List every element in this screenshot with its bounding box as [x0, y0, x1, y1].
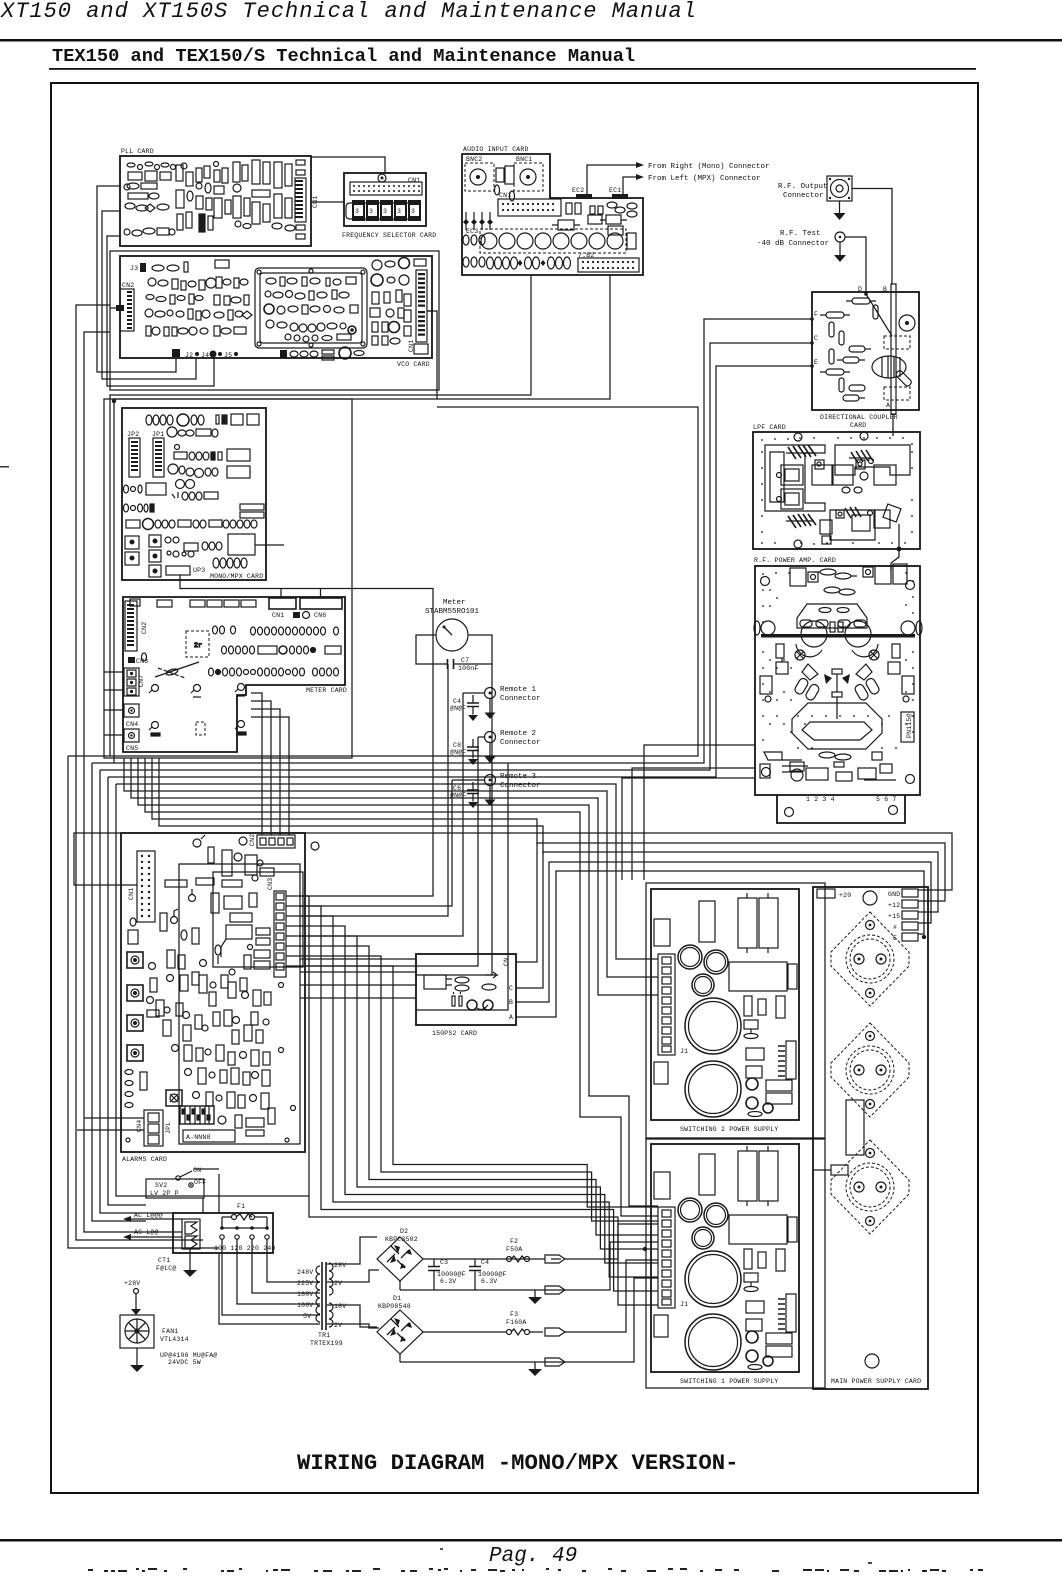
bus line B6 to 150PS2 loop riser — [152, 758, 537, 845]
meter card CN2 left connector — [125, 601, 148, 661]
svg-text:CN3: CN3 — [267, 878, 274, 890]
150PS2 loop 4 to main card pin E — [516, 871, 924, 1017]
alarms CN3 to 150PS2 wires — [300, 959, 416, 998]
svg-text:Connector: Connector — [500, 782, 541, 790]
svg-text:28V: 28V — [334, 1262, 346, 1269]
svg-text:WIRING DIAGRAM -MONO/MPX VERSI: WIRING DIAGRAM -MONO/MPX VERSION- — [297, 1450, 739, 1476]
svg-text:Connector: Connector — [783, 192, 824, 200]
left corridor wire 6 — [108, 777, 146, 1205]
svg-text:CARD: CARD — [850, 422, 866, 429]
svg-text:A: A — [509, 1014, 513, 1021]
svg-text:VTL4314: VTL4314 — [160, 1336, 189, 1343]
middle corridor M3 from remote 3 — [300, 780, 452, 906]
meter card lower test points — [149, 684, 246, 737]
svg-text:PN115@: PN115@ — [906, 713, 913, 738]
wire VCO right edge to container — [427, 311, 437, 399]
svg-text:D2: D2 — [400, 1228, 408, 1235]
bus line B5 deep to switching1 J1 — [145, 758, 658, 1216]
svg-text:+15: +15 — [888, 913, 900, 920]
+28V rail riser to switching1 — [603, 1224, 658, 1259]
bus line A3 coupler C — [100, 343, 812, 770]
PLL CN edge connector — [295, 178, 319, 222]
left corridor wire 2 — [76, 305, 203, 1240]
svg-text:J3: J3 — [130, 265, 138, 272]
VCO module container — [110, 251, 439, 390]
staircase SG1 line 6 — [300, 946, 658, 1235]
svg-text:CN4: CN4 — [126, 721, 138, 728]
svg-text:F1: F1 — [237, 1203, 245, 1210]
middle corridor M4 from remote 1 — [300, 693, 463, 936]
staircase SG1 line 7 — [300, 956, 658, 1221]
svg-text:Connector: Connector — [500, 739, 541, 747]
main card +20 pin — [817, 889, 851, 899]
svg-text:6.3V: 6.3V — [481, 1278, 497, 1285]
bus line A2 coupler F — [92, 319, 812, 763]
svg-text:F160A: F160A — [506, 1319, 527, 1326]
smoothing caps C3 C4 — [400, 1259, 545, 1290]
svg-text:CN: CN — [503, 958, 510, 966]
svg-text:B: B — [509, 999, 513, 1006]
svg-text:Connector: Connector — [500, 695, 541, 703]
svg-text:F: F — [814, 311, 818, 318]
switching 2 power supply module — [646, 883, 825, 1138]
footer rule — [0, 1539, 1062, 1542]
svg-text:+20: +20 — [839, 892, 851, 899]
meter card — [123, 597, 347, 752]
VCO J2 J4 J5 test points — [172, 347, 364, 360]
R.F. Test connector — [757, 230, 846, 262]
VCO card — [120, 256, 432, 368]
svg-text:F2: F2 — [510, 1238, 518, 1245]
D1 rectifier bridge — [377, 1295, 423, 1354]
R.F. Output connector — [778, 176, 852, 220]
transformer primary wires from fuse pins — [203, 1174, 320, 1324]
D2 input wires — [327, 1237, 379, 1282]
switching 1 power supply module — [646, 1139, 825, 1388]
0V output arrow and ground — [528, 1286, 565, 1304]
VCO J3 point — [130, 263, 146, 272]
svg-text:J1: J1 — [680, 1301, 688, 1308]
From Left (MPX) arrow — [623, 174, 761, 194]
svg-text:J5: J5 — [224, 352, 232, 359]
wire mono/mpx UP3 to meter card CN1/CN6 — [180, 575, 321, 597]
svg-text:SV2: SV2 — [155, 1182, 167, 1189]
LPF trace outline — [765, 445, 825, 511]
svg-text:150PS2 CARD: 150PS2 CARD — [432, 1030, 477, 1037]
svg-text:100V: 100V — [297, 1302, 313, 1309]
staircase SG1 line 4 — [300, 926, 658, 1263]
svg-text:A-NNN8: A-NNN8 — [186, 1134, 211, 1141]
coupling coil — [872, 356, 906, 378]
svg-text:2V: 2V — [334, 1280, 342, 1287]
AC line arrows — [123, 1212, 182, 1240]
meter to alarms CN2 riser 4 — [251, 717, 289, 835]
alarms CN1 connector — [128, 851, 155, 922]
R.F. power amp card — [754, 557, 922, 823]
svg-text:C4: C4 — [453, 698, 461, 705]
svg-text:ALARMS CARD: ALARMS CARD — [122, 1156, 167, 1163]
middle scatter — [167, 950, 175, 968]
F2 fuse — [506, 1238, 530, 1262]
svg-text:C4: C4 — [481, 1259, 489, 1266]
meter card top edge connectors — [130, 598, 342, 609]
+28V fan supply — [124, 1280, 141, 1315]
svg-text:CN1: CN1 — [408, 177, 420, 184]
alarms card — [121, 833, 305, 1163]
bus line B2 to switching2 J1 — [124, 758, 658, 977]
left margin tick — [0, 466, 9, 468]
wire RF output to coupler B — [852, 189, 892, 285]
amp lower parts — [760, 752, 896, 781]
main card power transistor 2 — [831, 1023, 909, 1117]
alarms CN2 top connector — [239, 834, 319, 850]
PLL card components — [124, 160, 305, 239]
svg-text:LPF CARD: LPF CARD — [753, 424, 786, 431]
svg-text:CT1: CT1 — [158, 1257, 170, 1264]
bus line B3 to switching2 J1 — [131, 758, 658, 995]
lower 0V rail riser — [545, 1278, 658, 1362]
svg-text:UP3: UP3 — [193, 567, 205, 574]
amp upper trapezoid — [797, 604, 867, 628]
alarms bottom label strip — [165, 1122, 235, 1142]
wire PLL pin1 to VCO J2 — [97, 186, 176, 372]
F1 fuse block — [173, 1203, 276, 1253]
svg-text:C: C — [509, 985, 513, 992]
F3 fuse and 18V rail — [423, 1311, 603, 1336]
alarms DIP switch — [180, 1106, 214, 1124]
svg-text:+28V: +28V — [124, 1280, 140, 1287]
meter to alarms CN2 riser 3 — [251, 709, 280, 835]
svg-text:CN1: CN1 — [272, 612, 284, 619]
wire PLL top to frequency selector top — [311, 157, 385, 173]
svg-text:5 6 7: 5 6 7 — [876, 796, 897, 803]
svg-text:@N@F: @N@F — [450, 749, 466, 756]
svg-text:@N@F: @N@F — [450, 705, 466, 712]
svg-text:GND: GND — [888, 891, 900, 898]
svg-text:R.F. POWER AMP. CARD: R.F. POWER AMP. CARD — [754, 557, 836, 564]
svg-text:JPL: JPL — [165, 1122, 172, 1134]
svg-text:10000@F: 10000@F — [478, 1271, 507, 1278]
svg-text:R.F. Test: R.F. Test — [780, 230, 821, 238]
18V rail riser — [603, 1260, 658, 1332]
main card GND loop — [74, 833, 952, 890]
staircase SG1 line 1 — [300, 896, 658, 1305]
+28V output arrow — [545, 1255, 603, 1263]
svg-text:Remote 1: Remote 1 — [500, 686, 537, 694]
VCO right section components — [370, 258, 426, 346]
bus line A1 audio/VCO to left — [68, 311, 698, 756]
VCO CN2 connector left — [116, 282, 134, 331]
svg-text:24VDC 5W: 24VDC 5W — [168, 1359, 201, 1366]
svg-text:BNC2: BNC2 — [466, 156, 482, 163]
amp hexagon output network — [792, 703, 882, 749]
Remote 1 connector — [463, 686, 541, 719]
CN1 connector — [498, 192, 561, 216]
svg-text:AUDIO INPUT CARD: AUDIO INPUT CARD — [463, 146, 529, 153]
D2 rectifier bridge — [377, 1228, 423, 1281]
svg-text:TRTEX199: TRTEX199 — [310, 1340, 343, 1347]
svg-text:C8: C8 — [453, 742, 461, 749]
svg-text:2r: 2r — [194, 642, 202, 649]
alarms CN3 stubs — [286, 896, 300, 966]
amp top input components — [790, 564, 907, 595]
switching 2 J1 connector — [658, 954, 688, 1055]
meter to alarms CN2 riser 2 — [251, 701, 271, 835]
resistors — [820, 298, 878, 401]
CT1 ground — [183, 1249, 197, 1277]
RF amp input wires left — [622, 745, 755, 880]
wire PLL pin3 to VCO J5 — [107, 236, 214, 386]
svg-text:CN3: CN3 — [136, 658, 148, 665]
switching 2 components — [654, 893, 797, 1117]
svg-text:-40 dB Connector: -40 dB Connector — [757, 240, 829, 248]
svg-text:248V: 248V — [297, 1269, 313, 1276]
wire audio CN1 down to mono container — [110, 275, 531, 756]
diagram outer border — [51, 83, 978, 1493]
directional coupler card — [810, 284, 919, 429]
left corridor wire 1 — [68, 756, 219, 1248]
main card middle parts — [813, 1100, 864, 1175]
svg-text:XT150 and XT150S Technical and: XT150 and XT150S Technical and Maintenan… — [0, 0, 697, 24]
svg-text:F50A: F50A — [506, 1246, 522, 1253]
thick bus bar — [761, 634, 915, 638]
transformer TR1 — [297, 1262, 346, 1347]
bus line B4 deep to switching1 J1 — [138, 758, 658, 1206]
alarms CN3 connector column — [267, 878, 286, 977]
svg-text:#: # — [893, 924, 897, 931]
wire audio 7B2 down to mono container — [114, 275, 610, 763]
svg-text:UP@4106 MU@FA@: UP@4106 MU@FA@ — [160, 1352, 217, 1359]
svg-text:MAIN POWER SUPPLY CARD: MAIN POWER SUPPLY CARD — [831, 1378, 921, 1385]
svg-text:SWITCHING 2 POWER SUPPLY: SWITCHING 2 POWER SUPPLY — [680, 1126, 778, 1133]
bus line A4 coupler E — [108, 366, 812, 777]
svg-text:CN5: CN5 — [126, 745, 138, 752]
svg-text:CN2: CN2 — [122, 282, 134, 289]
left corridor wire 7 — [116, 784, 309, 1196]
middle corridor M5 from remote 2 — [300, 737, 478, 966]
svg-text:3: 3 — [369, 208, 373, 215]
alarms card components — [125, 835, 296, 1142]
wire PLL pin2 to VCO J4 — [102, 211, 196, 379]
svg-text:C: C — [814, 335, 818, 342]
middle corridor M6 from meter to 150PS2 — [416, 664, 492, 975]
svg-text:100 120 220 240: 100 120 220 240 — [214, 1245, 276, 1252]
bus line B7 to 150PS2 loop riser — [159, 758, 543, 854]
150PS2 right pins — [503, 958, 513, 1021]
svg-text:JP2: JP2 — [127, 431, 139, 438]
C4 capacitor — [450, 695, 479, 721]
wire VCO CN2 stub — [110, 307, 116, 309]
relay squares left column — [128, 930, 138, 944]
svg-text:225V: 225V — [297, 1280, 313, 1287]
svg-text:180V: 180V — [297, 1291, 313, 1298]
svg-text:From Left (MPX) Connector: From Left (MPX) Connector — [648, 175, 761, 183]
meter card CN7 connector — [124, 668, 145, 696]
wire PLL to frequency selector — [311, 201, 344, 203]
middle corridor M1 from mono UP3 — [300, 589, 433, 897]
svg-text:D: D — [858, 286, 862, 293]
mono/mpx bottom connectors and parts — [125, 534, 284, 577]
svg-text:A: A — [886, 402, 890, 409]
audio input card — [462, 146, 643, 275]
svg-text:BNC1: BNC1 — [516, 156, 532, 163]
bottom small parts — [280, 350, 287, 358]
mono/mpx card — [122, 408, 266, 580]
svg-text:CN1: CN1 — [128, 888, 135, 900]
150PS2 loop 3 to main card pin4 — [516, 862, 931, 1002]
bus line B1 to switching2 J1 — [116, 784, 658, 959]
svg-text:3: 3 — [411, 208, 415, 215]
svg-text:FAN1: FAN1 — [162, 1328, 178, 1335]
main card right pins GND +12 +15 # E — [888, 889, 926, 942]
staircase SG1 line 3 — [300, 916, 658, 1277]
Remote 3 connector — [452, 773, 541, 806]
middle corridor M2 from meter loop — [300, 664, 448, 916]
frequency selector card — [342, 173, 436, 239]
wire RF test to coupler D — [845, 237, 866, 292]
amp transistors — [801, 621, 827, 647]
svg-text:KBPC3502: KBPC3502 — [385, 1236, 418, 1243]
svg-text:EC2: EC2 — [572, 187, 584, 194]
main power supply card — [813, 887, 928, 1389]
svg-text:D1: D1 — [393, 1295, 401, 1302]
alarms CN4 wires left — [77, 1118, 144, 1130]
svg-text:METER CARD: METER CARD — [306, 687, 347, 694]
CT1 mains filter — [156, 1219, 200, 1272]
svg-text:TR1: TR1 — [318, 1332, 330, 1339]
svg-text:C7: C7 — [461, 657, 469, 664]
svg-text:100nF: 100nF — [458, 665, 479, 672]
audio electrolytic row (dashed) — [466, 228, 636, 253]
PLL card — [120, 148, 311, 246]
svg-text:CN2: CN2 — [141, 622, 148, 634]
meter — [425, 599, 480, 651]
svg-text:C3: C3 — [440, 1259, 448, 1266]
audio 7x2 connector bottom — [578, 252, 639, 272]
svg-text:R.F. Output: R.F. Output — [778, 183, 828, 191]
svg-text:F3: F3 — [510, 1311, 518, 1318]
svg-text:3: 3 — [397, 208, 401, 215]
svg-text:J1: J1 — [680, 1048, 688, 1055]
svg-text:3: 3 — [355, 208, 359, 215]
svg-text:6.3V: 6.3V — [440, 1278, 456, 1285]
svg-text:18V: 18V — [334, 1303, 346, 1310]
circle with dot — [899, 315, 915, 331]
meter CN7 stubs — [104, 672, 124, 690]
LPF capacitors — [777, 459, 901, 545]
C8 capacitor — [450, 739, 479, 765]
svg-text:Meter: Meter — [443, 599, 466, 607]
amp mid section — [760, 644, 914, 701]
svg-text:E: E — [814, 359, 818, 366]
svg-text:MONO/MPX CARD: MONO/MPX CARD — [210, 573, 263, 580]
meter to alarms CN2 riser 1 — [251, 693, 262, 835]
left corridor wire 5 — [100, 770, 173, 1213]
LPF card — [753, 414, 920, 552]
svg-text:J2: J2 — [185, 352, 193, 359]
svg-text:EC3: EC3 — [466, 228, 478, 235]
junction dot — [112, 399, 116, 403]
svg-text:10000@F: 10000@F — [437, 1271, 466, 1278]
VCO CN1 edge connector right — [408, 270, 428, 354]
150PS2 card — [416, 954, 516, 1037]
svg-text:Pag. 49: Pag. 49 — [489, 1545, 577, 1568]
switching 1 J1 connector — [658, 1207, 688, 1308]
meter card components — [186, 626, 341, 676]
svg-text:B: B — [883, 286, 887, 293]
EC2 EC1 connectors on top edge — [572, 187, 628, 199]
svg-text:5V: 5V — [303, 1313, 311, 1320]
mono/mpx JP2 JP1 connectors — [127, 431, 164, 477]
svg-text:JP1: JP1 — [152, 431, 164, 438]
svg-text:VCO CARD: VCO CARD — [397, 361, 430, 368]
svg-text:CN2: CN2 — [249, 834, 256, 846]
audio card small parts — [463, 202, 637, 267]
150PS2 loop 1 to main card +12 — [516, 843, 945, 962]
scan noise line at bottom — [88, 1548, 983, 1572]
D1 input wires — [327, 1305, 379, 1328]
left corridor wire 3 — [84, 332, 182, 1232]
SW2 power switch — [146, 1167, 219, 1198]
D1 lower rail arrow and ground — [400, 1354, 565, 1376]
switching 1 components — [654, 1146, 797, 1370]
relay between BNCs — [495, 166, 515, 201]
meter wiring loop with C7 — [416, 635, 492, 672]
svg-text:FREQUENCY SELECTOR CARD: FREQUENCY SELECTOR CARD — [342, 232, 436, 239]
dashed taps — [884, 336, 910, 349]
middle corridor M7 to 150PS2 — [416, 763, 508, 1010]
LPF inductors (hatched) — [788, 445, 873, 528]
svg-text:CN1: CN1 — [499, 192, 511, 199]
amp mounting plate — [777, 795, 905, 823]
FAN1 — [120, 1315, 217, 1372]
svg-text:ON: ON — [193, 1167, 201, 1174]
svg-text:KBP08548: KBP08548 — [378, 1303, 411, 1310]
left corridor wire 4 — [92, 763, 146, 1221]
PN label box — [901, 712, 914, 742]
svg-text:TEX150 and TEX150/S Technical: TEX150 and TEX150/S Technical and Mainte… — [52, 45, 635, 67]
svg-text:2V: 2V — [334, 1322, 342, 1329]
mono/mpx module container — [104, 399, 352, 758]
150PS2 loop 2 to main card +15 — [516, 852, 938, 988]
wire LPF to RF amp — [891, 549, 899, 571]
header rule — [0, 39, 1062, 42]
svg-text:CN7: CN7 — [138, 675, 145, 687]
svg-text:J4: J4 — [201, 352, 209, 359]
svg-text:DIRECTIONAL COUPLER: DIRECTIONAL COUPLER — [820, 414, 898, 421]
svg-text:SWITCHING 1 POWER SUPPLY: SWITCHING 1 POWER SUPPLY — [680, 1378, 778, 1385]
coax line — [891, 284, 896, 414]
VCO shielded oscillator box — [255, 268, 367, 348]
svg-text:1 2 3 4: 1 2 3 4 — [806, 796, 835, 803]
staircase SG1 line 2 — [300, 906, 658, 1291]
C6 capacitor — [450, 782, 479, 808]
svg-text:Remote 2: Remote 2 — [500, 730, 536, 738]
mono/mpx components — [124, 414, 265, 530]
svg-text:+12: +12 — [888, 902, 900, 909]
meter card CN4 CN5 connectors — [124, 704, 139, 752]
thumbwheel digits — [346, 203, 420, 219]
scissors cut symbol — [155, 662, 199, 678]
svg-text:PLL CARD: PLL CARD — [121, 148, 154, 155]
svg-text:EC1: EC1 — [609, 187, 621, 194]
From Right (Mono) arrow — [587, 162, 770, 194]
audio bottom electrolytics — [487, 257, 571, 269]
LPF output dot — [897, 547, 902, 552]
staircase SG1 line 5 — [300, 936, 658, 1249]
meter CN4 CN5 stubs — [104, 710, 124, 735]
alarms CN4 connector bottom — [136, 1110, 163, 1146]
